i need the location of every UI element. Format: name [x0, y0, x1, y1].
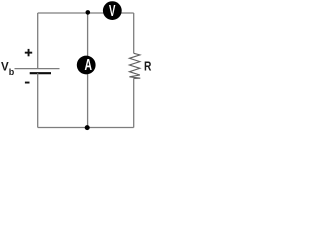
battery plus sign [25, 52, 32, 54]
battery Vb short plate [30, 72, 51, 74]
wire left upper [37, 13, 39, 69]
wire middle branch [87, 13, 89, 128]
wire right lower [133, 78, 135, 127]
wire left lower [37, 73, 39, 127]
svg-text:V: V [1, 62, 9, 74]
svg-text:b: b [9, 67, 15, 77]
battery minus sign [25, 82, 30, 84]
resistor R [129, 53, 140, 78]
voltmeter V body [103, 1, 122, 20]
svg-text:V: V [109, 2, 116, 20]
wire bottom [38, 127, 134, 129]
wire top [38, 12, 134, 14]
ammeter A body [77, 56, 96, 75]
node junction bottom [85, 125, 90, 130]
svg-text:A: A [85, 56, 93, 74]
svg-text:R: R [144, 61, 152, 74]
node junction top [86, 10, 91, 15]
battery Vb long plate [15, 68, 60, 70]
wire right upper [133, 13, 135, 53]
